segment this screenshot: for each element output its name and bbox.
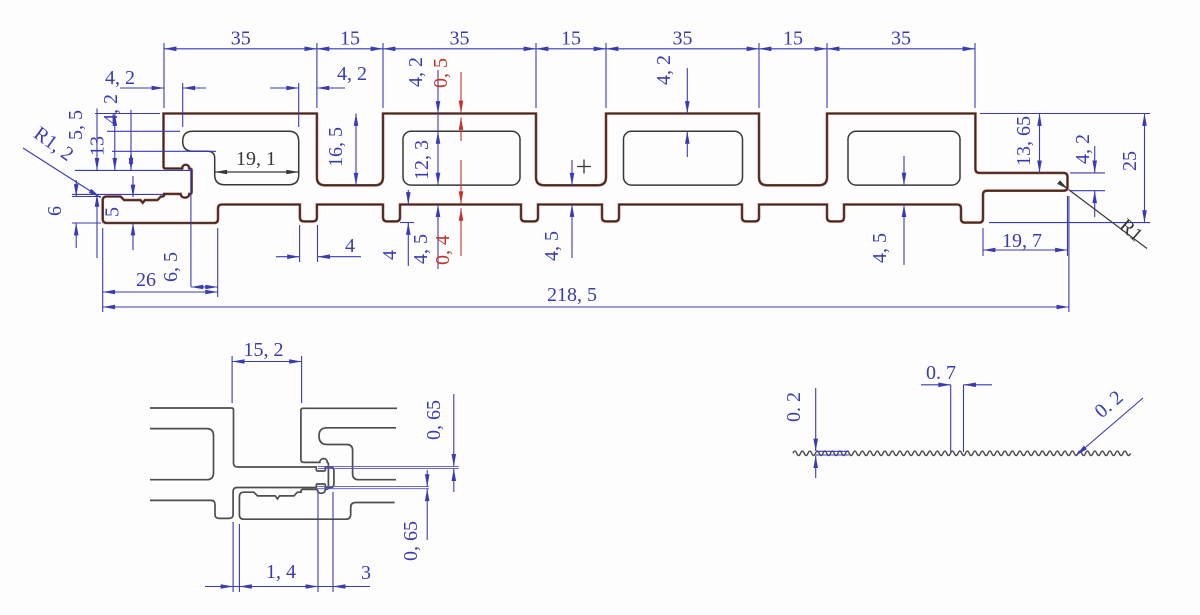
svg-text:0. 7: 0. 7 [926, 362, 956, 384]
svg-text:35: 35 [891, 28, 911, 50]
svg-text:0, 5: 0, 5 [430, 58, 452, 88]
svg-text:13, 65: 13, 65 [1013, 116, 1035, 166]
svg-text:3: 3 [361, 562, 371, 584]
svg-text:0, 65: 0, 65 [400, 521, 422, 561]
svg-text:4, 2: 4, 2 [100, 94, 122, 124]
svg-text:4, 2: 4, 2 [337, 63, 367, 85]
svg-text:15, 2: 15, 2 [244, 339, 284, 361]
svg-text:25: 25 [1119, 151, 1141, 171]
svg-text:4, 5: 4, 5 [541, 231, 563, 261]
svg-text:0, 65: 0, 65 [423, 400, 445, 440]
svg-text:35: 35 [450, 28, 470, 50]
svg-text:218, 5: 218, 5 [547, 284, 597, 306]
svg-text:12, 3: 12, 3 [411, 140, 433, 180]
svg-text:4, 5: 4, 5 [410, 234, 432, 264]
svg-text:35: 35 [231, 28, 251, 50]
svg-text:4, 2: 4, 2 [405, 57, 427, 87]
svg-text:35: 35 [673, 28, 693, 50]
svg-text:26: 26 [136, 269, 156, 291]
svg-text:6: 6 [44, 206, 66, 216]
svg-text:0, 4: 0, 4 [432, 235, 454, 265]
svg-text:5, 5: 5, 5 [65, 110, 87, 140]
svg-text:4: 4 [345, 235, 355, 257]
svg-text:15: 15 [561, 28, 581, 50]
svg-text:0. 2: 0. 2 [783, 392, 805, 422]
svg-text:4, 2: 4, 2 [653, 55, 675, 85]
svg-text:1, 4: 1, 4 [266, 561, 296, 583]
svg-text:15: 15 [783, 28, 803, 50]
svg-text:4, 2: 4, 2 [1072, 134, 1094, 164]
svg-text:4, 2: 4, 2 [105, 67, 135, 89]
svg-text:19, 1: 19, 1 [236, 148, 276, 170]
svg-text:R1: R1 [1115, 215, 1147, 247]
svg-text:4, 5: 4, 5 [869, 233, 891, 263]
svg-text:5: 5 [102, 207, 124, 217]
svg-text:19, 7: 19, 7 [1002, 230, 1042, 252]
svg-text:0. 2: 0. 2 [1091, 386, 1128, 422]
svg-text:4: 4 [379, 250, 401, 260]
svg-text:6, 5: 6, 5 [160, 252, 182, 282]
svg-text:13: 13 [87, 136, 109, 156]
svg-text:16, 5: 16, 5 [325, 127, 347, 167]
svg-text:15: 15 [340, 28, 360, 50]
